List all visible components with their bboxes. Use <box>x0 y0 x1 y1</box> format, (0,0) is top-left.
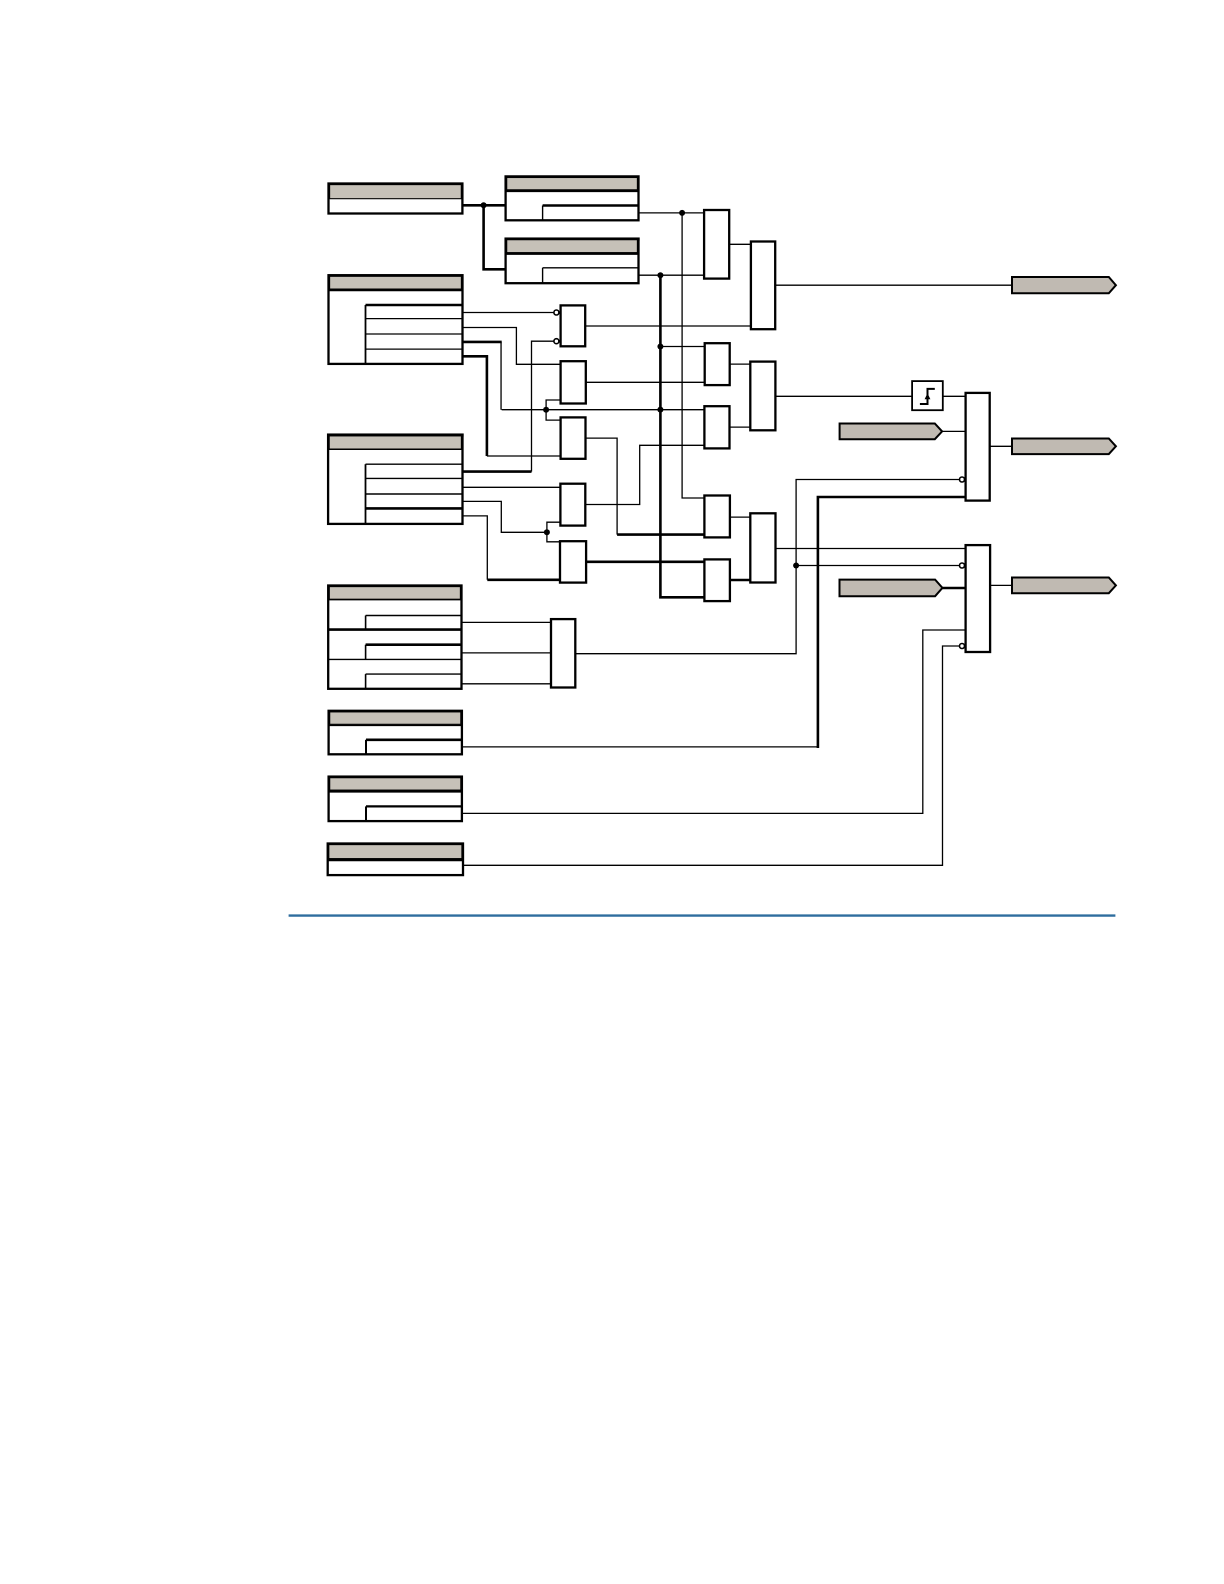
junction dot J8 (W23 branch to G6) <box>793 563 799 569</box>
block B1 (top-left signal block) <box>329 184 463 214</box>
gate G7 (3-input gate of block BL4) <box>551 619 575 687</box>
output arrow OUT3 <box>1012 578 1116 594</box>
wire W1 (B1 output to B2/B3 inputs) <box>462 205 505 269</box>
wire W3c (bus branch to G3 input) <box>660 346 704 348</box>
gate G1 (column-2 gate, top) <box>704 210 729 279</box>
wire W24 (BL5 output to G5 lower input) <box>462 497 966 748</box>
wire W11 (BL3 row2 to SG4 input) <box>463 486 561 488</box>
input arrow ARR2 <box>840 580 943 597</box>
inverted-input bubble BB3 (G5) <box>960 477 965 482</box>
wire W18 (G3 output to G4) <box>730 363 751 365</box>
junction dot J3 (bus at B3 output) <box>657 272 663 278</box>
junction dot J4 (bus branch to G3) <box>657 344 663 350</box>
wire W17 (SG5 output to G8b input) <box>586 560 704 563</box>
wire W20 (G4 output to TRIG) <box>775 395 912 397</box>
gate G2 (OR to output 1) <box>751 242 775 330</box>
horizontal blue divider rule <box>289 914 1116 916</box>
wire W12 (BL3 row3 to SG4/SG5 inputs) <box>463 501 561 541</box>
gate G6 (output gate 2, 5 inputs) <box>966 545 991 652</box>
gate G4 <box>750 362 775 431</box>
junction dot J7 (W12 branch) <box>544 529 550 535</box>
wire W33 (BL4 sub-row2 to G7) <box>462 652 552 654</box>
wire W19 (GX output to G4) <box>730 426 751 428</box>
wire W22 (ARR1 to G5) <box>942 430 966 432</box>
gate SG2 <box>561 361 586 403</box>
gate G8b <box>704 559 730 601</box>
gate G9 <box>750 513 775 582</box>
wire W35 (G8a output to G9) <box>730 516 750 518</box>
gate G5 (output gate 1, 4 inputs) <box>966 393 990 501</box>
wire W21 (TRIG output to G5) <box>944 395 966 397</box>
inverted-input bubble BB1 (SG1 upper) <box>554 310 559 315</box>
wire W27 (BL7 output to G6 inverted input) <box>463 646 959 865</box>
wire W32 (BL4 sub-row1 to G7) <box>462 621 552 623</box>
step-function box TRIG (edge trigger symbol) <box>912 381 943 410</box>
gate SG3 <box>561 417 586 458</box>
wire W4 (G1 output to G2) <box>729 243 751 245</box>
block BL3 (second left block with 4-row table) <box>327 435 464 524</box>
wire W3 (B3 output to G1) <box>639 274 705 276</box>
input arrow ARR1 <box>840 424 943 440</box>
gate G3 <box>705 343 730 385</box>
junction dot J6 (W6 branch to SG2/SG3) <box>543 407 549 413</box>
gate SG1 (NAND with two inverted inputs) <box>561 305 586 346</box>
junction dot J5 (bus joins W6) <box>657 407 663 413</box>
wire W25 (G9 output to G6 input) <box>776 548 966 550</box>
wire W2 (B2 output to G1 and down to G8a) <box>639 213 705 498</box>
block B2 (upper middle function block) <box>506 176 639 220</box>
inverted-input bubble BB2 (SG1 lower) <box>554 339 559 344</box>
gate GX <box>704 406 729 448</box>
block BL7 (bottom-left block) <box>328 844 463 876</box>
wire W16 (SG4 output to GX lower input) <box>585 445 704 504</box>
wire W23 (G7 output up to G5 and G6 inverted inputs) <box>575 480 959 654</box>
block BL4 (left block with three sub-rows) <box>328 586 461 689</box>
block B3 (second middle function block) <box>505 239 640 284</box>
wire W28 (G2 output to OUT1) <box>775 284 1012 286</box>
wire W7 (BL2 row1 to SG1 inverted input) <box>463 312 554 314</box>
wire W26 (BL6 output to G6 input) <box>462 630 966 813</box>
wire W29 (G5 output to OUT2) <box>990 445 1012 447</box>
wire W13 (BL3 row4 to SG5 lower input) <box>463 516 561 580</box>
wire W15 (SG3 output to G8a lower input) <box>586 438 705 534</box>
junction dot J1 on W1 <box>481 202 487 208</box>
output arrow OUT1 <box>1012 277 1116 293</box>
junction dot J2 on W2 <box>679 210 685 216</box>
wire W5 (SG1 output to G2 lower input) <box>585 325 751 327</box>
wire W34 (BL4 sub-row3 to G7) <box>462 683 552 685</box>
wire W3b (vertical bus from B3 output down to G8b) <box>660 275 704 597</box>
block BL2 (left block with 4-row table) <box>329 275 463 364</box>
gate G8a <box>704 496 730 538</box>
wire W6 (BL2 row3 to SG2/SG3/bus/GX) <box>463 342 705 420</box>
output arrow OUT2 <box>1012 439 1116 455</box>
wire W14 (SG2 output to G3 lower input) <box>586 381 705 383</box>
gate SG5 <box>560 541 586 582</box>
gate SG4 <box>560 484 585 526</box>
wire W30 (G6 output to OUT3) <box>990 584 1012 586</box>
wire W36 (G8b output to G9) <box>730 579 750 582</box>
wire W9 (BL2 row4 to SG3 lower input) <box>463 356 561 456</box>
block BL6 (lower-left block 2) <box>329 777 462 822</box>
block BL5 (lower-left block) <box>329 711 462 755</box>
wire W10 (BL3 row1 to SG1 inverted input 2) <box>463 341 554 471</box>
inverted-input bubble BB4 (G6 upper) <box>960 563 965 568</box>
wire W31 (ARR2 to G6) <box>942 587 965 590</box>
inverted-input bubble BB5 (G6 lower) <box>960 644 965 649</box>
wire W8 (BL2 row2 to SG2 input) <box>463 328 561 365</box>
